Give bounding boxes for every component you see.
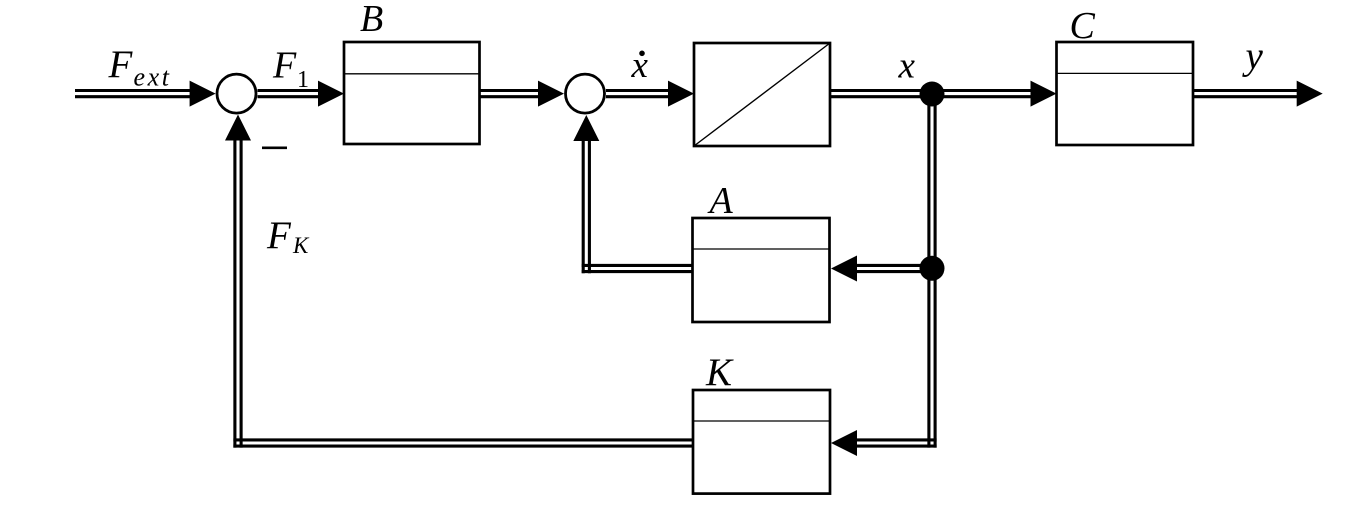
node dot x main bbox=[920, 82, 945, 107]
svg-text:F: F bbox=[272, 45, 297, 87]
wire S2 to integrator bbox=[606, 91, 670, 97]
svg-text:B: B bbox=[360, 0, 383, 40]
svg-text:F: F bbox=[266, 214, 292, 257]
svg-text:K: K bbox=[705, 351, 734, 394]
wire integrator to block C bbox=[830, 91, 1032, 97]
block A bbox=[693, 218, 830, 322]
label F_ext bbox=[108, 43, 172, 92]
summing junction S2 bbox=[566, 74, 605, 113]
arrowhead into summing junction S1 bbox=[190, 81, 216, 107]
svg-text:C: C bbox=[1070, 5, 1096, 47]
arrowhead into summing junction S2 bbox=[538, 81, 564, 107]
minus sign at S1 bbox=[262, 147, 287, 150]
svg-text:ext: ext bbox=[134, 63, 172, 92]
svg-text:1: 1 bbox=[297, 67, 309, 93]
wire node x to block K (horizontal) bbox=[857, 440, 937, 446]
wire output y bbox=[1193, 91, 1298, 97]
arrowhead into block C bbox=[1031, 81, 1057, 107]
wire block K output to S1 (vertical) bbox=[235, 140, 241, 448]
label x node bbox=[898, 46, 916, 87]
label y bbox=[1242, 35, 1264, 78]
label A bbox=[707, 180, 734, 222]
wire S1 to block B bbox=[258, 91, 323, 97]
wire input Fext bbox=[75, 91, 200, 97]
label xdot bbox=[631, 45, 649, 86]
label F_1 bbox=[272, 45, 309, 94]
svg-text:y: y bbox=[1242, 35, 1264, 78]
wire block A output to S2 (vertical) bbox=[583, 140, 589, 273]
label K bbox=[705, 351, 734, 394]
label C bbox=[1070, 5, 1096, 47]
block B bbox=[344, 42, 480, 144]
svg-text:K: K bbox=[292, 233, 310, 258]
svg-text:x: x bbox=[631, 45, 649, 86]
summing junction S1 bbox=[217, 74, 256, 113]
svg-text:F: F bbox=[108, 43, 134, 86]
arrowhead output y bbox=[1297, 81, 1323, 107]
arrowhead into S2 from below bbox=[573, 115, 599, 141]
label B bbox=[360, 0, 383, 40]
svg-text:x: x bbox=[898, 46, 916, 87]
svg-text:A: A bbox=[707, 180, 734, 222]
wire block A output to S2 (horizontal) bbox=[582, 265, 693, 271]
block K bbox=[693, 390, 830, 494]
wire node x2 to block A bbox=[857, 265, 932, 271]
label F_K bbox=[266, 214, 310, 258]
node dot x2 on A branch bbox=[920, 256, 945, 281]
wire block K output to S1 (horizontal) bbox=[233, 440, 693, 446]
arrowhead into block B bbox=[318, 81, 344, 107]
arrowhead into integrator bbox=[668, 81, 694, 107]
arrowhead into block K bbox=[831, 430, 857, 456]
wire node x vertical down to K corner bbox=[929, 94, 935, 448]
arrowhead into block A bbox=[831, 256, 857, 282]
block C bbox=[1057, 42, 1194, 145]
wire block B to summing junction S2 bbox=[480, 91, 541, 97]
arrowhead into S1 from below bbox=[225, 115, 251, 141]
integrator block bbox=[694, 43, 830, 146]
